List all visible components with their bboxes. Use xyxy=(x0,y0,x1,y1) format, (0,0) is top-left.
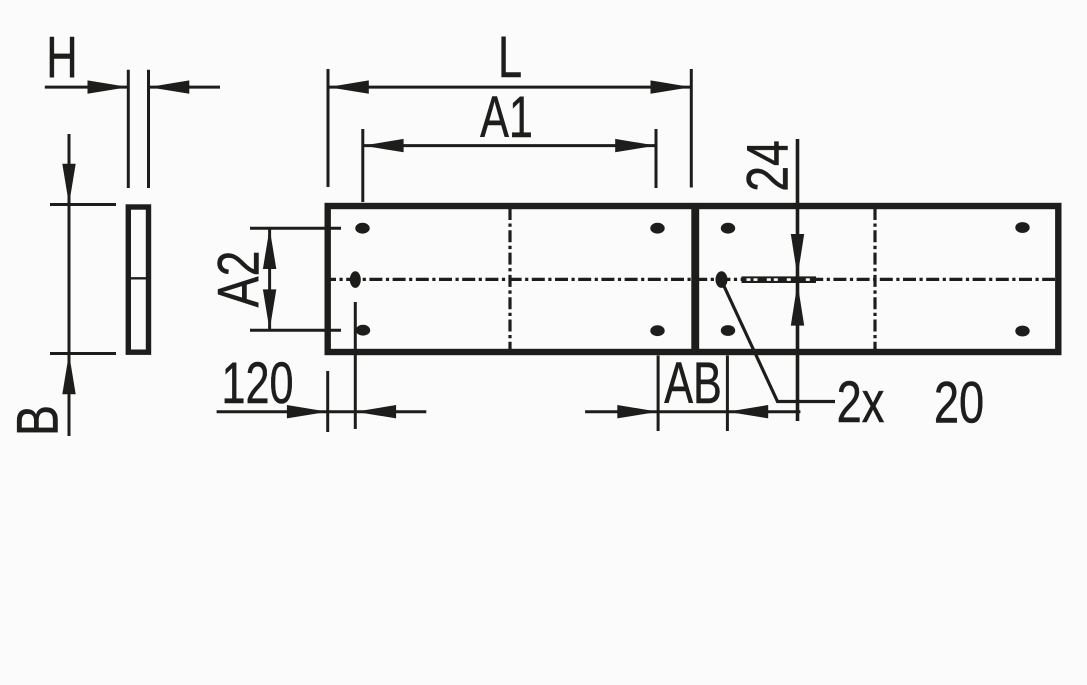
hole top row 1 xyxy=(355,223,369,234)
120 dimension line xyxy=(217,410,427,413)
120 arrow right xyxy=(355,405,396,418)
A2 extension line bottom xyxy=(250,329,341,332)
20 slot length label xyxy=(934,371,984,436)
hole top row 2 xyxy=(650,223,664,234)
L extension line right xyxy=(690,69,693,188)
B dimension label xyxy=(6,405,71,436)
L arrow right xyxy=(651,80,692,93)
A1 extension line right xyxy=(655,129,658,188)
120 extension line right xyxy=(354,302,357,429)
svg-text:H: H xyxy=(46,25,77,90)
24 dimension label xyxy=(736,140,801,192)
leader line from oval hole xyxy=(724,285,836,402)
H dimension line right tail xyxy=(149,86,221,89)
AB extension line right xyxy=(726,356,729,432)
L extension line left xyxy=(327,69,330,187)
24 dimension line xyxy=(796,139,800,421)
A2 arrow top xyxy=(263,228,276,269)
vertical center line right segment xyxy=(873,208,876,350)
hole bottom row 2 xyxy=(650,325,664,336)
AB dimension label xyxy=(664,351,722,416)
hole bottom row 4 xyxy=(1015,326,1029,337)
AB dimension line xyxy=(585,410,800,413)
main plate outline xyxy=(328,206,1059,352)
AB extension line left xyxy=(657,356,660,432)
B dimension line xyxy=(68,134,71,436)
H dimension label xyxy=(46,25,77,90)
svg-text:120: 120 xyxy=(221,351,293,416)
svg-text:A2: A2 xyxy=(207,251,272,308)
svg-text:A1: A1 xyxy=(480,85,533,150)
A2 dimension label xyxy=(207,251,272,308)
24 arrow bottom xyxy=(791,283,804,326)
H dimension line left tail xyxy=(45,86,128,89)
hole bottom row 3 xyxy=(721,325,735,336)
svg-text:AB: AB xyxy=(664,351,722,416)
oval hole right xyxy=(716,271,728,288)
A2 extension line top xyxy=(250,227,341,230)
svg-text:24: 24 xyxy=(736,140,801,192)
hole bottom row 1 xyxy=(356,325,370,336)
A1 arrow left xyxy=(363,139,404,152)
120 arrow left xyxy=(287,405,328,418)
H extension line right xyxy=(147,70,150,188)
A1 dimension label xyxy=(480,85,533,150)
side view mid joint line xyxy=(128,277,149,279)
plate joint divider xyxy=(691,203,699,354)
24 arrow top xyxy=(791,234,804,277)
A2 dimension line xyxy=(268,228,271,330)
slot slit gap marks xyxy=(747,278,810,281)
vertical center line left segment xyxy=(508,208,511,350)
horizontal center line xyxy=(330,278,1055,281)
H arrow left xyxy=(88,80,129,93)
B arrow top xyxy=(62,164,75,205)
oval hole left xyxy=(350,271,361,288)
A1 dimension line xyxy=(363,144,656,147)
H extension line left xyxy=(127,70,130,188)
B extension line top xyxy=(50,203,116,206)
AB arrow right xyxy=(727,405,768,418)
B extension line bottom xyxy=(50,352,116,355)
L arrow left xyxy=(328,80,369,93)
svg-text:L: L xyxy=(498,25,522,90)
AB arrow left xyxy=(617,405,658,418)
hole top row 4 xyxy=(1015,222,1029,233)
svg-text:B: B xyxy=(6,405,71,436)
L dimension label xyxy=(498,25,522,90)
slot outline xyxy=(742,276,817,283)
2x quantity label xyxy=(837,371,885,436)
hole top row 3 xyxy=(721,223,735,234)
svg-text:2x: 2x xyxy=(837,371,885,436)
H arrow right xyxy=(149,80,190,93)
L dimension line xyxy=(328,86,691,89)
B arrow bottom xyxy=(62,354,75,395)
A1 extension line left xyxy=(361,129,364,202)
A1 arrow right xyxy=(615,139,656,152)
A2 arrow bottom xyxy=(263,289,276,330)
120 dimension label xyxy=(221,351,293,416)
svg-text:20: 20 xyxy=(934,371,984,436)
120 extension line left xyxy=(326,371,329,432)
side view plate outline xyxy=(128,207,148,352)
